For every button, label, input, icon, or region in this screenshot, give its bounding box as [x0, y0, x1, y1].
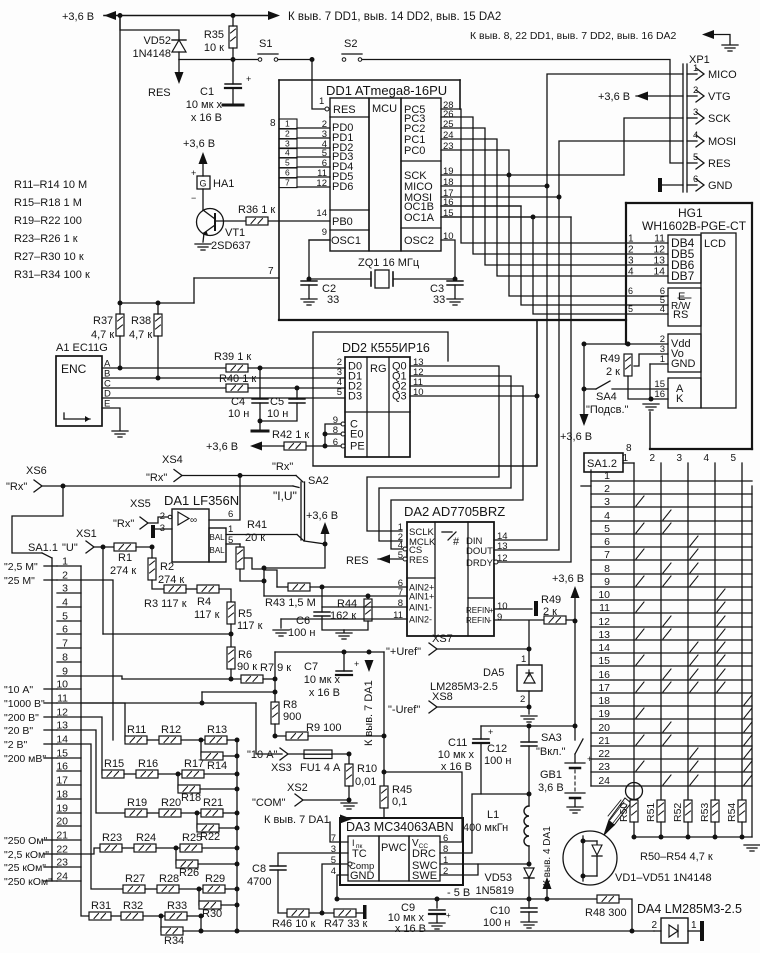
svg-text:+: + — [246, 74, 251, 84]
svg-text:E0: E0 — [350, 429, 363, 441]
contact mark col3 row7 — [690, 549, 698, 559]
svg-text:"U": "U" — [62, 542, 78, 554]
wire DD1 OSC1 — [309, 239, 330, 241]
contact mark col2 row13 — [663, 629, 671, 639]
resistor R17 — [182, 770, 204, 778]
wire opamp pin3 — [155, 528, 172, 530]
svg-text:1: 1 — [691, 920, 697, 931]
svg-text:R35: R35 — [204, 29, 224, 41]
IC DD1 outer boundary — [279, 80, 626, 320]
junction R49 top — [626, 342, 631, 347]
row contact SA1.1 21 — [57, 839, 81, 841]
wire DA4 right — [688, 930, 700, 932]
wire row1 down — [81, 566, 89, 916]
IC DA3 left box — [348, 836, 379, 881]
ground DA5 — [521, 716, 537, 722]
row contact SA1.1 16 — [57, 770, 81, 772]
svg-text:4: 4 — [693, 130, 698, 141]
svg-text:17: 17 — [598, 682, 610, 694]
svg-text:"Rx": "Rx" — [6, 481, 27, 493]
wire C6 bottom — [322, 616, 344, 630]
svg-text:+: + — [488, 727, 493, 737]
wire C9 lower — [436, 914, 438, 922]
svg-text:"Rx": "Rx" — [113, 518, 134, 530]
wire COM line — [303, 799, 349, 801]
wire R35 top — [232, 16, 234, 27]
contact mark col1 row17 — [636, 682, 644, 692]
svg-text:VD52: VD52 — [143, 35, 171, 47]
svg-text:10 мк х: 10 мк х — [438, 749, 475, 761]
ground VT1 — [195, 244, 211, 250]
svg-text:∞: ∞ — [190, 515, 197, 526]
bus box net 3 — [279, 139, 297, 149]
wire R9 right — [308, 735, 384, 737]
buzzer HA1 — [197, 176, 210, 189]
arrow +3,6V SA2 — [321, 522, 330, 534]
svg-text:- 5 В: - 5 В — [447, 887, 470, 899]
ground AIN2- — [273, 630, 289, 636]
capacitor C10 — [521, 908, 537, 912]
svg-text:2: 2 — [285, 129, 290, 139]
wire DD2 PE — [306, 445, 341, 447]
svg-text:R18: R18 — [181, 792, 201, 804]
svg-text:4: 4 — [703, 453, 709, 464]
wire lcd lane 2 — [441, 117, 626, 254]
svg-text:R12: R12 — [161, 724, 181, 736]
contact mark col5 row18 — [744, 695, 752, 705]
svg-text:-: - — [489, 616, 492, 625]
junction rail SA3 — [573, 724, 578, 729]
svg-text:R54: R54 — [726, 803, 738, 822]
resistor R49 — [624, 354, 632, 376]
svg-text:21: 21 — [598, 735, 610, 747]
junction R25 R26 left — [174, 846, 179, 851]
encoder rotation arrow — [64, 413, 90, 422]
svg-text:7: 7 — [268, 266, 274, 277]
resistor R40 — [226, 384, 248, 392]
tick label row 1 — [44, 565, 57, 567]
contact mark col2 row21 — [663, 735, 671, 745]
contact mark col4 row16 — [717, 669, 725, 679]
diode VD52 — [172, 40, 186, 52]
svg-text:7: 7 — [604, 549, 610, 561]
resistor R48 — [597, 895, 619, 903]
svg-text:18: 18 — [598, 695, 610, 707]
grid row line 12 — [591, 626, 752, 628]
svg-text:+3,6 В: +3,6 В — [206, 441, 238, 453]
wire lcd lane 6 — [441, 206, 626, 305]
ground bar R47 — [363, 905, 367, 919]
wire C9 top — [436, 899, 438, 908]
svg-text:C10: C10 — [490, 905, 510, 917]
svg-text:"25 кОм": "25 кОм" — [4, 862, 46, 874]
wire DA5 bottom lead — [528, 691, 530, 714]
row contact SA1.1 22 — [57, 853, 81, 855]
wire DA3 Vcc — [384, 772, 462, 842]
resistor R51 — [657, 800, 665, 822]
junction R50 rail — [632, 835, 637, 840]
wire R5x rail — [634, 836, 752, 838]
grid row line 1 — [591, 480, 752, 482]
svg-text:4: 4 — [331, 866, 336, 877]
junction SCK lane — [507, 173, 512, 178]
resistor R54 — [738, 800, 746, 822]
svg-text:DOUT: DOUT — [466, 546, 493, 557]
switch column 1 line — [633, 463, 635, 800]
contact mark col3 row6 — [690, 536, 698, 546]
wire DA3 SWC — [440, 863, 529, 865]
svg-text:9: 9 — [497, 612, 502, 623]
svg-text:10 к: 10 к — [204, 42, 224, 54]
junction R38 B row — [156, 376, 161, 381]
contact mark col2 row16 — [663, 669, 671, 679]
junction R52 rail — [686, 835, 691, 840]
wire lcd lane 5 — [441, 150, 626, 296]
svg-text:RES: RES — [409, 555, 429, 566]
resistor R30 — [199, 901, 221, 909]
wire R7 row left ext — [122, 678, 231, 680]
wire SA1.2 left bus — [590, 470, 592, 786]
svg-text:XS5: XS5 — [130, 498, 151, 510]
svg-text:DRC: DRC — [412, 848, 436, 860]
svg-text:R22: R22 — [200, 831, 220, 843]
socket XS6 — [34, 480, 42, 492]
switch SA1.2 box — [584, 453, 623, 472]
wire VD52 branch — [120, 16, 179, 41]
svg-text:+3,6 В: +3,6 В — [62, 11, 94, 23]
svg-text:OSC2: OSC2 — [404, 235, 434, 247]
row contact SA1.1 2 — [57, 579, 81, 581]
contact mark col3 row15 — [690, 655, 698, 665]
svg-text:5: 5 — [693, 152, 698, 163]
junction R44 top — [366, 594, 371, 599]
svg-text:3,6 В: 3,6 В — [538, 782, 564, 794]
contact mark col5 row20 — [744, 722, 752, 732]
contact mark col4 row13 — [717, 629, 725, 639]
row contact SA1.1 7 — [57, 647, 81, 649]
svg-text:C8: C8 — [252, 863, 266, 875]
contact mark col2 row5 — [663, 523, 671, 533]
svg-text:GND: GND — [350, 870, 375, 882]
switch SA1.1 arm — [42, 553, 52, 558]
wire C12 bottom — [528, 746, 530, 794]
junction R5 R6 — [229, 632, 234, 637]
capacitor C8 — [270, 866, 286, 870]
HG1 pin box data — [668, 235, 701, 283]
svg-text:PD6: PD6 — [332, 181, 353, 193]
svg-text:C7: C7 — [304, 661, 318, 673]
svg-text:1: 1 — [285, 119, 290, 129]
svg-text:2: 2 — [693, 85, 698, 96]
switch S1 — [258, 54, 278, 61]
wire +3,6 down to R37 — [119, 16, 121, 304]
resistor R19 — [125, 809, 147, 817]
IC DA2 body — [407, 522, 494, 636]
contact mark col3 row9 — [690, 576, 698, 586]
svg-text:DA5: DA5 — [483, 667, 504, 679]
tick label row 12 — [44, 716, 57, 718]
wire R33 R34 vert — [160, 916, 162, 931]
wire R5 bottom — [230, 624, 232, 647]
svg-text:R30: R30 — [202, 908, 222, 920]
junction bus R30 — [235, 903, 240, 908]
svg-text:DA3 MC34063ABN: DA3 MC34063ABN — [346, 820, 454, 834]
junction rail C12 — [527, 724, 532, 729]
svg-text:13: 13 — [598, 629, 610, 641]
wire R49b right — [566, 619, 575, 621]
wire R20 R21 — [181, 812, 201, 814]
wire R16 R17 — [158, 773, 182, 775]
resistor R10 — [345, 764, 353, 786]
contact mark col3 row22 — [690, 748, 698, 758]
wire row6 long — [103, 633, 231, 635]
wire HG1 DB7 inner — [626, 275, 668, 277]
wire AIN2- row — [281, 618, 407, 620]
svg-text:2: 2 — [160, 511, 165, 522]
svg-text:PWC: PWC — [381, 842, 407, 854]
grid row line 24 — [591, 785, 752, 787]
svg-text:"2,5 кОм": "2,5 кОм" — [4, 849, 49, 861]
wire XP1 pin 2 — [687, 95, 697, 97]
svg-text:К выв. 4 DA1: К выв. 4 DA1 — [542, 826, 553, 886]
svg-text:RG: RG — [370, 363, 387, 375]
resistor R47 — [334, 909, 356, 917]
svg-text:FU1 4 А: FU1 4 А — [300, 762, 341, 774]
junction bus R21 — [235, 811, 240, 816]
svg-text:DD1 ATmega8-16PU: DD1 ATmega8-16PU — [326, 83, 447, 98]
wire XS4 line — [182, 475, 296, 477]
bus box net 1 — [279, 119, 297, 129]
contact mark col5 row24 — [744, 775, 752, 785]
contact mark col2 row20 — [663, 722, 671, 732]
svg-text:R24: R24 — [136, 832, 156, 844]
junction R37 R38 top — [118, 301, 123, 306]
wire R41 bottom — [240, 569, 264, 581]
svg-text:PC0: PC0 — [404, 145, 425, 157]
svg-text:10 н: 10 н — [267, 408, 288, 420]
contact mark col3 row23 — [690, 761, 698, 771]
wire R31 R32 — [111, 915, 121, 917]
wire C6 gnd stub — [343, 630, 345, 632]
ground C3 — [447, 299, 463, 305]
svg-text:C4: C4 — [231, 396, 245, 408]
socket XS4 — [174, 470, 182, 482]
contact mark col1 row19 — [636, 708, 644, 718]
resistor R27 — [123, 885, 145, 893]
junction R10 top — [347, 752, 352, 757]
wire R54 bottom — [741, 822, 743, 837]
svg-text:"2,5 М": "2,5 М" — [4, 561, 38, 573]
svg-text:"Rx": "Rx" — [146, 472, 167, 484]
wire DA1 bal5 — [226, 543, 240, 545]
resistor R4 — [197, 585, 219, 593]
svg-text:RES: RES — [346, 555, 369, 567]
wire DD2 Q3 — [410, 395, 537, 397]
resistor R1 — [114, 543, 136, 551]
IC DA3 mid box — [379, 836, 409, 881]
svg-text:GND: GND — [708, 180, 733, 192]
arrow +3,6V SA4 — [580, 414, 589, 426]
detail big circle — [563, 831, 617, 885]
wire DD1 PD6 — [297, 186, 330, 188]
wire R8 top — [274, 679, 276, 702]
svg-text:24: 24 — [598, 775, 610, 787]
svg-text:1: 1 — [622, 453, 628, 464]
wire DA3 SWE — [440, 864, 478, 875]
svg-text:AIN1-: AIN1- — [409, 603, 432, 613]
svg-text:VD53: VD53 — [484, 872, 512, 884]
svg-text:+: + — [191, 168, 196, 178]
svg-text:XS6: XS6 — [26, 465, 47, 477]
junction XS1 — [101, 545, 106, 550]
svg-text:R8: R8 — [283, 699, 297, 711]
grid row line 18 — [591, 705, 752, 707]
wire row12 to R15 — [81, 717, 102, 774]
svg-text:C1: C1 — [200, 86, 214, 98]
junction bus R17 — [235, 772, 240, 777]
wire R38 top link — [120, 302, 194, 304]
svg-text:"200 В": "200 В" — [4, 712, 39, 724]
junction +3,6 SA2 — [323, 542, 328, 547]
junction RES line R35 — [231, 57, 236, 62]
junction Vcc rail — [382, 770, 387, 775]
svg-text:10: 10 — [598, 589, 610, 601]
junction SA4 — [582, 387, 587, 392]
ground C9 — [429, 923, 445, 929]
resistor R52 — [684, 800, 692, 822]
svg-text:R20: R20 — [161, 797, 181, 809]
svg-text:R28: R28 — [159, 873, 179, 885]
wire C5 top — [296, 388, 298, 399]
svg-text:К выв. 8, 22 DD1, выв. 7 DD2,: К выв. 8, 22 DD1, выв. 7 DD2, выв. 16 DA… — [470, 30, 677, 42]
contact mark col3 row24 — [690, 775, 698, 785]
arrow gnd net — [702, 30, 714, 39]
svg-text:R27–R30 10 к: R27–R30 10 к — [14, 251, 84, 263]
svg-text:"1000 В": "1000 В" — [4, 698, 45, 710]
svg-text:19: 19 — [598, 708, 610, 720]
svg-text:SA2: SA2 — [308, 475, 329, 487]
resistor R31 — [89, 912, 111, 920]
svg-text:6: 6 — [693, 174, 698, 185]
wire DA3 Ipk — [330, 822, 348, 842]
svg-text:R36 1 к: R36 1 к — [238, 204, 275, 216]
encoder A1 body — [56, 356, 102, 426]
svg-text:R25: R25 — [182, 832, 202, 844]
IC DD1 left pin box — [330, 98, 369, 251]
wire r10 riser — [256, 703, 282, 754]
pin circle DD1 RES — [325, 107, 329, 111]
grid row line 15 — [591, 665, 752, 667]
wire row11 to XS3 — [81, 702, 256, 704]
junction R13 R14 left — [199, 738, 204, 743]
IC DD2 body — [345, 357, 410, 457]
svg-text:R42 1 к: R42 1 к — [272, 429, 309, 441]
contact mark col4 row17 — [717, 682, 725, 692]
wire HG1 DB6 inner — [626, 264, 668, 266]
ground GB1 — [567, 807, 583, 813]
wire R44 bottom — [344, 621, 368, 630]
row contact SA1.1 23 — [57, 866, 81, 868]
inductor L1 — [524, 806, 529, 846]
junction node264 top — [262, 566, 267, 571]
wire OC1B row ext — [441, 205, 521, 207]
wire R11 R12 — [147, 739, 159, 741]
arrow right to DD1 pin7 — [268, 11, 280, 20]
resistor R16 — [136, 770, 158, 778]
wire to DA1 pin4 — [546, 889, 548, 899]
pin circle DD2 C — [341, 422, 345, 426]
svg-text:4,7 к: 4,7 к — [129, 329, 152, 341]
capacitor C12 — [521, 742, 537, 746]
wire crystal right — [393, 278, 455, 280]
svg-text:+3,6 В: +3,6 В — [598, 91, 630, 103]
wire VT1 base — [215, 220, 246, 222]
svg-text:1N4148: 1N4148 — [132, 48, 171, 60]
svg-text:RES: RES — [333, 104, 356, 116]
wire R25 right — [202, 847, 237, 849]
svg-text:R34: R34 — [164, 935, 184, 947]
svg-text:R43 1,5 М: R43 1,5 М — [265, 597, 316, 609]
pin XP1 2 VTG — [696, 90, 704, 102]
contact mark col4 row15 — [717, 655, 725, 665]
pin circle DA3 comp — [348, 862, 352, 866]
svg-text:1: 1 — [604, 470, 610, 482]
ground terminal XP1 — [658, 178, 662, 192]
tick label row 22 — [44, 853, 57, 855]
resistor R8 — [271, 702, 279, 724]
row contact SA1.1 5 — [57, 620, 81, 622]
wire R19 R20 — [147, 812, 159, 814]
wire OSC2 to crystal — [441, 240, 455, 279]
wire top +3,6 V rail — [104, 15, 268, 17]
svg-text:274 к: 274 к — [158, 574, 184, 586]
wire OC1A row ext — [441, 216, 571, 218]
junction C5 — [295, 386, 300, 391]
svg-text:1N5819: 1N5819 — [475, 885, 514, 897]
svg-text:3: 3 — [604, 496, 610, 508]
svg-text:C6: C6 — [296, 615, 310, 627]
ground C10 — [521, 922, 537, 928]
svg-text:R50: R50 — [618, 803, 630, 822]
junction Q3 net — [535, 394, 540, 399]
wire R33 bus2 down — [200, 916, 202, 931]
bus box net 6 — [279, 168, 297, 178]
tick label row 15 — [44, 757, 57, 759]
wire XS1 to R1 — [94, 546, 114, 548]
svg-text:9: 9 — [604, 576, 610, 588]
contact mark col5 row19 — [744, 708, 752, 718]
svg-text:3: 3 — [160, 523, 165, 534]
wire DA3 GND — [337, 875, 348, 899]
svg-text:R15: R15 — [104, 758, 124, 770]
IC DA3 outer — [340, 818, 463, 885]
wire gnd drop — [649, 364, 651, 399]
svg-text:SCK: SCK — [708, 113, 731, 125]
svg-text:16: 16 — [598, 669, 610, 681]
HG1 pin box pwr — [668, 334, 701, 372]
junction R9 rail — [382, 734, 387, 739]
wire DRDY lane — [498, 217, 571, 562]
resistor R38 — [154, 314, 162, 336]
arrow +3,6V VTG — [636, 92, 648, 101]
switch SA4 — [584, 381, 610, 389]
pin XP1 6 GND — [696, 179, 704, 191]
wire C12 top — [528, 726, 530, 742]
wire encoder E to gnd — [102, 408, 120, 430]
wire R17 right — [204, 773, 237, 775]
socket XS8 — [429, 701, 437, 713]
pin name HG1 RW — [671, 298, 691, 312]
